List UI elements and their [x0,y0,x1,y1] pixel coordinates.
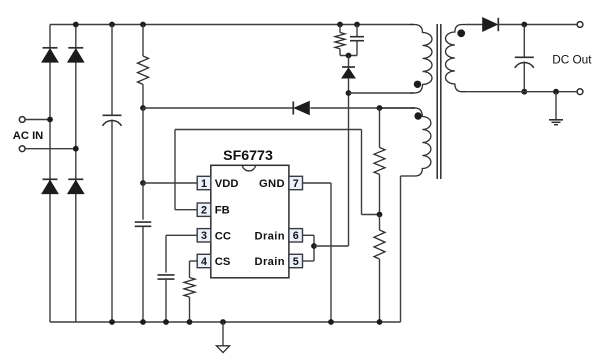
capacitor C4 (clamp) [350,25,364,56]
wire startup resistor top [142,25,144,57]
svg-text:Drain: Drain [255,230,285,242]
wire divider top [379,108,381,148]
wire snubber bracket [340,55,357,57]
capacitor C3 (CC) [158,275,175,279]
wire right bridge leg [75,25,77,323]
wire AC neutral to bridge [25,148,76,150]
terminal DC Out + [577,22,583,28]
pin label CS [215,256,231,268]
primary phase dot [414,81,421,88]
junction top rail / right leg [73,22,79,28]
junction primary bottom / clamp [346,90,352,96]
junction drain [311,243,317,249]
junction top rail / snubber R [337,22,343,28]
wire clamp diode top [348,56,350,68]
wire CC cap bottom [165,279,167,322]
wire VDD cap top [142,183,144,220]
pin 2 box [197,203,211,217]
wire primary bottom [349,92,415,94]
wire output top [498,24,577,26]
transformer T1 primary winding [410,25,432,94]
svg-text:Drain: Drain [255,256,285,268]
capacitor C5 (output) [515,57,534,68]
terminal AC neutral [19,146,25,152]
junction bottom rail / bulk cap [109,319,115,325]
svg-text:SF6773: SF6773 [223,148,273,164]
pin 6 box [289,229,303,243]
label SF6773 [223,148,273,164]
junction bottom rail / GND [328,319,334,325]
wire startup resistor to VDD node [142,84,144,108]
terminal AC line [19,117,25,123]
pin 7 box [289,176,303,190]
label DC Out [552,53,592,67]
junction top rail / startup resistor [140,22,146,28]
pin label FB [215,205,230,217]
diode D6 (VDD rectifier) [293,102,309,115]
wire drain horizontal [314,245,349,247]
wire CS vertical [189,261,191,278]
svg-text:5: 5 [293,256,299,268]
pin 4 box [197,254,211,268]
wire drain vertical to primary [348,93,350,246]
wire CC pin to corner [166,234,197,236]
svg-text:7: 7 [293,178,299,190]
junction top rail / snubber C [354,22,360,28]
junction bottom rail / VDD cap [140,319,146,325]
wire GND pin right [303,182,332,184]
wire bottom rail (- bus) [50,321,401,323]
transformer T1 core [437,24,441,179]
svg-text:6: 6 [293,230,299,242]
wire output cap bottom [523,62,525,92]
svg-text:4: 4 [201,256,207,268]
wire bulk cap top [111,25,113,116]
svg-text:CS: CS [215,256,231,268]
wire FB drop [361,130,363,215]
aux phase dot [414,112,421,119]
wire CS resistor bottom [189,297,191,322]
wire CC vertical [165,235,167,272]
op IC body U1 SF6773 [211,165,289,277]
pin 5 box [289,254,303,268]
resistor R4 (divider upper) [374,148,385,175]
transformer T1 auxiliary winding [411,108,431,176]
junction AC line / left leg [47,117,53,123]
pin label GND [259,178,285,190]
bridge diode D2 [68,48,84,62]
junction top rail / bulk cap [109,22,115,28]
wire bulk cap bottom [111,120,113,323]
wire output ground stem [555,92,557,120]
ground (earth, secondary) [549,120,563,125]
wire CS pin to corner [190,260,198,262]
node FB tap [377,212,383,218]
svg-text:FB: FB [215,205,230,217]
junction snubber / clamp diode [346,53,352,59]
junction AC neutral / right leg [73,146,79,152]
wire top rail (+ bus) [50,24,414,26]
wire aux return [401,176,412,322]
bridge diode D3 [42,179,58,193]
svg-text:2: 2 [201,205,207,217]
svg-text:CC: CC [215,230,231,242]
wire Drain pin6 [303,235,315,246]
wire divider mid2 [379,215,381,231]
junction VDD line / divider [377,105,383,111]
wire clamp diode bottom [348,78,350,93]
diode D7 (output rectifier) [483,18,499,31]
wire divider bottom [379,259,381,322]
wire VDD cap bottom [142,226,144,322]
resistor R5 (divider lower) [374,230,385,259]
junction output cap top [521,22,527,28]
junction bottom rail / divider [377,319,383,325]
pin label Drain 6 [255,230,285,242]
wire divider mid [379,174,381,214]
junction VDD / pin1 tap [140,180,146,186]
wire Drain pin5 [303,246,315,261]
svg-text:3: 3 [201,230,207,242]
svg-text:GND: GND [259,178,285,190]
wire GND vertical [330,183,332,322]
wire FB pin to corner [175,209,197,211]
bridge diode D4 [68,179,84,193]
svg-text:DC Out: DC Out [552,53,592,67]
junction output ground tap [553,89,559,95]
wire aux top [380,107,416,109]
terminal DC Out - [577,89,583,95]
svg-text:1: 1 [201,178,207,190]
secondary phase dot [457,29,465,37]
pin 1 box [197,176,211,190]
resistor R2 (CS sense) [184,278,195,298]
junction bottom rail / CC cap [163,319,169,325]
wire secondary top [466,24,483,26]
wire VDD pin1 branch [143,182,197,184]
junction bottom rail / CS resistor [187,319,193,325]
node VDD [140,105,146,111]
pin label CC [215,230,231,242]
wire FB tap [362,214,380,216]
wire VDD line left [143,107,293,109]
pin label Drain 5 [255,256,285,268]
wire output cap top [523,25,525,58]
label AC IN [13,130,43,142]
capacitor C2 (VDD) [135,222,152,226]
wire left bridge leg [49,25,51,323]
diode D5 (clamp) [342,67,355,78]
junction output cap bottom [521,89,527,95]
ground (signal, open triangle) [216,346,229,353]
capacitor C1 (bulk) [103,115,122,126]
wire ground stem [222,322,224,346]
wire VDD node down to pin1 [142,108,144,183]
junction bottom rail / ground stem [220,319,226,325]
resistor R3 (clamp) [335,25,345,56]
pin 3 box [197,229,211,243]
svg-text:VDD: VDD [215,178,239,190]
wire AC line to bridge [25,119,50,121]
wire FB horizontal [175,129,362,131]
resistor R1 (startup) [138,56,149,84]
transformer T1 secondary winding [445,25,466,92]
svg-text:AC IN: AC IN [13,130,43,142]
pin label VDD [215,178,239,190]
wire secondary bottom [466,91,577,93]
wire FB vertical [174,130,176,210]
bridge diode D1 [42,48,58,62]
wire VDD line right [310,107,415,109]
